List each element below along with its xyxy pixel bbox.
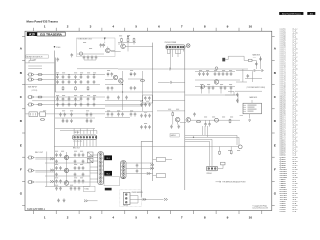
jack J1602 bbox=[29, 78, 35, 81]
capacitor bbox=[82, 179, 85, 183]
pin 5 bbox=[99, 169, 102, 172]
wire bbox=[111, 42, 153, 51]
svg-text:CN7001 POWER: CN7001 POWER bbox=[165, 42, 178, 44]
wire net V2 bbox=[47, 152, 67, 187]
resistor R3210 bbox=[40, 119, 45, 121]
resistor R3231 bbox=[229, 119, 231, 123]
capacitor bbox=[62, 80, 65, 84]
pin 4 bbox=[122, 172, 125, 175]
node bbox=[249, 120, 251, 122]
capacitor bbox=[56, 75, 59, 79]
pin 6 bbox=[180, 46, 182, 48]
wire bbox=[180, 120, 240, 122]
transistor Q3201 bbox=[214, 80, 219, 85]
capacitor bbox=[78, 166, 81, 170]
transistor Q7603 bbox=[64, 155, 69, 160]
wire bbox=[88, 200, 98, 202]
capacitor bbox=[62, 103, 65, 107]
capacitor bbox=[74, 173, 77, 177]
svg-text:CN7604: CN7604 bbox=[206, 173, 211, 175]
capacitor bbox=[82, 160, 85, 164]
wire bbox=[126, 160, 172, 176]
svg-text:2: 2 bbox=[67, 24, 69, 28]
wire bbox=[55, 129, 97, 134]
pin 4 bbox=[83, 136, 85, 138]
capacitor bbox=[222, 72, 225, 76]
wire bbox=[25, 75, 185, 109]
capacitor C1610 bbox=[100, 43, 103, 47]
relay RL7603 bbox=[105, 188, 112, 191]
capacitor bbox=[59, 166, 62, 170]
capacitor bbox=[80, 103, 83, 107]
capacitor bbox=[208, 86, 211, 90]
wire bbox=[158, 81, 185, 83]
test point arrow bbox=[104, 38, 106, 40]
pin labels bbox=[248, 105, 257, 112]
test point arrow bbox=[127, 36, 129, 38]
resistor R1622 bbox=[133, 38, 135, 42]
pin 2 bbox=[99, 157, 102, 160]
svg-text:Mono Panel/ E/S Trasera: Mono Panel/ E/S Trasera bbox=[282, 12, 301, 15]
svg-text:E/S TRASEIRA: E/S TRASEIRA bbox=[40, 32, 62, 36]
wire bbox=[105, 112, 153, 118]
capacitor bbox=[56, 97, 59, 101]
capacitor bbox=[87, 103, 90, 107]
capacitor bbox=[117, 112, 120, 116]
node E1601 bbox=[186, 44, 190, 48]
svg-text:A10: A10 bbox=[29, 32, 35, 36]
svg-text:F: F bbox=[274, 168, 276, 172]
capacitor bbox=[148, 125, 151, 129]
jack J1612 bbox=[29, 169, 35, 172]
connector CN7605 bbox=[206, 166, 217, 171]
transistor Q1606 bbox=[119, 79, 124, 84]
capacitor bbox=[78, 153, 81, 157]
capacitor bbox=[55, 173, 58, 177]
capacitor bbox=[130, 112, 133, 116]
pin 1 bbox=[122, 162, 125, 165]
capacitor C2261 bbox=[259, 57, 262, 61]
wire net V1 bbox=[55, 51, 56, 187]
capacitor bbox=[178, 125, 181, 129]
pin 7 bbox=[92, 136, 94, 138]
capacitor bbox=[70, 119, 73, 123]
capacitor bbox=[107, 86, 110, 90]
svg-text:(TO POWER SUPPLY CN801): (TO POWER SUPPLY CN801) bbox=[247, 87, 266, 89]
resistor R3240 bbox=[221, 162, 225, 165]
capacitor C1606 bbox=[91, 56, 94, 60]
wire bbox=[240, 114, 250, 119]
capacitor bbox=[93, 97, 96, 101]
capacitor bbox=[62, 119, 65, 123]
node bbox=[238, 145, 242, 149]
pin 6 bbox=[99, 172, 102, 175]
capacitor bbox=[212, 86, 215, 90]
capacitor bbox=[66, 119, 69, 123]
pin 1 bbox=[166, 46, 168, 48]
capacitor bbox=[82, 173, 85, 177]
jack J1601 bbox=[29, 73, 35, 76]
value labels bbox=[43, 35, 240, 186]
capacitor bbox=[68, 103, 71, 107]
capacitor bbox=[144, 125, 147, 129]
connector CN7604 bbox=[121, 161, 126, 179]
resistor series bbox=[38, 96, 43, 98]
plug P3 bbox=[147, 172, 151, 174]
connector CN7004 MAIN DECK bbox=[243, 103, 262, 114]
resistor R3230 bbox=[196, 121, 201, 123]
wire bus bbox=[185, 135, 239, 141]
capacitor bbox=[93, 75, 96, 79]
svg-text:CN7005 SERVICE: CN7005 SERVICE bbox=[132, 192, 143, 194]
wire bbox=[25, 114, 105, 121]
pin 3 bbox=[214, 168, 216, 170]
capacitor C1601 bbox=[57, 58, 60, 62]
pin 2 bbox=[211, 168, 213, 170]
capacitor bbox=[140, 114, 143, 118]
capacitor bbox=[230, 86, 233, 90]
capacitor bbox=[140, 103, 143, 107]
pin 3 bbox=[99, 161, 102, 164]
wire bbox=[195, 68, 248, 70]
capacitor bbox=[193, 112, 196, 116]
capacitor bbox=[87, 80, 90, 84]
capacitor bbox=[74, 153, 77, 157]
capacitor C1641 bbox=[170, 81, 174, 84]
transistor Q7604 bbox=[64, 168, 69, 173]
capacitor bbox=[74, 75, 77, 79]
transistor Q1605 bbox=[113, 75, 118, 80]
capacitor bbox=[111, 112, 114, 116]
box under relay bbox=[104, 177, 120, 186]
svg-text:P1600: P1600 bbox=[56, 47, 60, 49]
pin 7 bbox=[182, 46, 184, 48]
wire bbox=[185, 72, 240, 96]
capacitor bbox=[80, 75, 83, 79]
node bbox=[215, 118, 219, 122]
capacitor bbox=[136, 169, 139, 173]
capacitor bbox=[198, 72, 201, 76]
capacitor bbox=[214, 72, 217, 76]
transistor Q7606 bbox=[175, 117, 180, 122]
jack J1611 bbox=[29, 156, 35, 159]
resistor R3242 bbox=[230, 150, 232, 154]
svg-text:1: 1 bbox=[44, 24, 46, 28]
capacitor bbox=[74, 166, 77, 170]
svg-text:CN201: CN201 bbox=[253, 57, 257, 59]
sheet label A10 bbox=[27, 32, 37, 36]
filter box L5601 bbox=[143, 95, 153, 103]
wire net B bbox=[141, 43, 152, 198]
capacitor bbox=[74, 187, 77, 191]
svg-text:3139 125 5986.1: 3139 125 5986.1 bbox=[27, 208, 46, 211]
plug bbox=[50, 180, 54, 182]
wire bbox=[90, 155, 98, 187]
plug bbox=[50, 169, 54, 171]
svg-text:S1600: S1600 bbox=[32, 59, 36, 61]
wire bbox=[105, 101, 185, 107]
switch S1601 MONITOR SWITCH bbox=[26, 55, 49, 58]
transistor Q7605 bbox=[64, 181, 69, 186]
capacitor bbox=[111, 86, 114, 90]
capacitor C2270 bbox=[254, 69, 257, 72]
pin 8 bbox=[95, 136, 97, 138]
pin 2 bbox=[77, 136, 79, 138]
pin 5 bbox=[122, 176, 125, 179]
capacitor bbox=[86, 113, 89, 117]
pin 1 bbox=[74, 136, 76, 138]
capacitor bbox=[247, 74, 250, 78]
resistor bbox=[75, 86, 77, 90]
svg-text:2: 2 bbox=[67, 215, 69, 219]
capacitor bbox=[87, 97, 90, 101]
plug P4 bbox=[164, 198, 168, 200]
capacitor bbox=[125, 96, 128, 100]
svg-text:8: 8 bbox=[204, 215, 206, 219]
relay RL7602 bbox=[104, 171, 112, 176]
resistor series bbox=[38, 104, 43, 106]
transistor Q1602 bbox=[106, 48, 111, 53]
capacitor bbox=[170, 125, 173, 129]
capacitor bbox=[68, 97, 71, 101]
note bbox=[216, 181, 222, 183]
capacitor bbox=[226, 72, 229, 76]
capacitor bbox=[144, 114, 147, 118]
capacitor bbox=[206, 72, 209, 76]
wire bbox=[54, 146, 238, 148]
capacitor bbox=[55, 179, 58, 183]
wire net D bbox=[184, 49, 186, 190]
svg-text:9: 9 bbox=[227, 24, 229, 28]
capacitor bbox=[93, 80, 96, 84]
capacitor bbox=[107, 72, 110, 76]
capacitor bbox=[74, 179, 77, 183]
svg-text:(OPTION): (OPTION) bbox=[31, 90, 37, 92]
capacitor bbox=[68, 75, 71, 79]
capacitor bbox=[87, 75, 90, 79]
resistor R3241 bbox=[219, 151, 221, 155]
parts list column bbox=[280, 27, 299, 213]
svg-text:7: 7 bbox=[181, 215, 183, 219]
label box bbox=[170, 134, 179, 137]
pin 6 bbox=[89, 136, 91, 138]
wire bbox=[25, 63, 54, 69]
capacitor C1611 bbox=[102, 43, 105, 47]
pin 2 bbox=[125, 197, 127, 199]
capacitor bbox=[74, 103, 77, 107]
svg-text:CN7005: CN7005 bbox=[123, 205, 128, 207]
pin 2 bbox=[122, 165, 125, 168]
capacitor bbox=[56, 80, 59, 84]
node P1600 bbox=[54, 46, 56, 48]
capacitor bbox=[64, 113, 67, 117]
resistor bbox=[87, 86, 89, 90]
capacitor bbox=[140, 125, 143, 129]
capacitor bbox=[224, 86, 227, 90]
pin 4 bbox=[99, 165, 102, 168]
capacitor bbox=[86, 119, 89, 123]
ground bbox=[57, 199, 60, 202]
capacitor bbox=[55, 187, 58, 191]
capacitor bbox=[230, 72, 233, 76]
svg-text:REC OUT: REC OUT bbox=[73, 148, 80, 150]
capacitor bbox=[74, 80, 77, 84]
capacitor bbox=[134, 112, 137, 116]
plug P1 bbox=[150, 164, 154, 166]
capacitor bbox=[82, 166, 85, 170]
wire bbox=[118, 68, 195, 70]
svg-text:6: 6 bbox=[158, 24, 160, 28]
svg-text:3: 3 bbox=[90, 24, 92, 28]
capacitor C1604 bbox=[83, 56, 86, 60]
capacitor bbox=[62, 97, 65, 101]
node bbox=[215, 67, 218, 70]
svg-text:C2202: C2202 bbox=[280, 210, 287, 213]
connector CN7603 bbox=[98, 152, 104, 185]
capacitor bbox=[111, 72, 114, 76]
label box bbox=[84, 186, 96, 192]
capacitor bbox=[78, 179, 81, 183]
svg-text:A10: A10 bbox=[310, 12, 313, 15]
plug P5 bbox=[84, 200, 88, 202]
resistor series bbox=[38, 79, 43, 81]
capacitor bbox=[144, 96, 147, 100]
pin 1 bbox=[125, 194, 127, 196]
wire bbox=[218, 165, 223, 169]
ground bbox=[63, 199, 66, 202]
capacitor bbox=[136, 164, 139, 168]
pin 5 bbox=[177, 46, 179, 48]
capacitor bbox=[220, 86, 223, 90]
svg-text:9: 9 bbox=[227, 215, 229, 219]
capacitor bbox=[55, 153, 58, 157]
resistor bbox=[62, 86, 64, 90]
capacitor bbox=[80, 97, 83, 101]
capacitor bbox=[134, 86, 137, 90]
wire bbox=[105, 71, 143, 111]
svg-text:REC OUT: REC OUT bbox=[35, 152, 44, 154]
capacitor C1607 bbox=[95, 56, 98, 60]
capacitor bbox=[130, 86, 133, 90]
relay coil K2260 bbox=[222, 58, 225, 62]
module shield box bbox=[76, 38, 115, 57]
capacitor bbox=[82, 153, 85, 157]
capacitor bbox=[90, 113, 93, 117]
pin 8 bbox=[99, 180, 102, 183]
svg-text:Mono Panel/ E/S Trasera: Mono Panel/ E/S Trasera bbox=[27, 20, 59, 24]
wire bbox=[130, 196, 164, 204]
plug P4a bbox=[143, 198, 147, 200]
capacitor bbox=[59, 187, 62, 191]
capacitor bbox=[59, 113, 62, 117]
resistor series bbox=[38, 74, 43, 76]
transistor Q1601 bbox=[79, 52, 82, 55]
capacitor bbox=[70, 187, 73, 191]
svg-text:6: 6 bbox=[158, 215, 160, 219]
capacitor bbox=[148, 114, 151, 118]
pin 3 bbox=[125, 201, 127, 203]
wire net C bbox=[170, 49, 172, 69]
svg-text:7: 7 bbox=[181, 24, 183, 28]
service box bbox=[120, 190, 142, 207]
resistor R1621 bbox=[127, 38, 129, 42]
capacitor bbox=[56, 103, 59, 107]
pin 5 bbox=[86, 136, 88, 138]
svg-text:RL1: RL1 bbox=[107, 158, 110, 160]
capacitor C2271 bbox=[261, 69, 264, 72]
capacitor bbox=[134, 72, 137, 76]
resistor R3205 bbox=[140, 80, 145, 82]
node dots bbox=[122, 84, 123, 85]
connector CN7606 bbox=[123, 192, 130, 204]
capacitor bbox=[121, 112, 124, 116]
resistor bbox=[172, 112, 174, 116]
capacitor bbox=[148, 96, 151, 100]
wire bbox=[77, 60, 118, 69]
pin 3 bbox=[172, 46, 174, 48]
capacitor bbox=[236, 93, 239, 97]
pin 1 bbox=[208, 168, 210, 170]
capacitor bbox=[78, 187, 81, 191]
capacitor bbox=[107, 112, 110, 116]
wire bbox=[202, 90, 239, 103]
svg-text:CN7602: CN7602 bbox=[74, 132, 79, 134]
relay RL7601 bbox=[104, 155, 112, 160]
resistor R3220 bbox=[248, 59, 252, 61]
capacitor bbox=[107, 96, 110, 100]
transistor Q7602 bbox=[186, 118, 191, 123]
capacitor C1602 bbox=[71, 53, 74, 57]
capacitor bbox=[68, 80, 71, 84]
capacitor C1640 bbox=[169, 68, 173, 71]
capacitor bbox=[208, 122, 211, 126]
svg-text:4: 4 bbox=[112, 215, 114, 219]
jack J1604 bbox=[29, 103, 35, 106]
svg-text:10: 10 bbox=[249, 24, 253, 28]
capacitor bbox=[117, 96, 120, 100]
jack J1603 bbox=[29, 96, 35, 99]
pin 1 bbox=[99, 153, 102, 156]
capacitor bbox=[74, 97, 77, 101]
socket bbox=[156, 158, 165, 162]
capacitor bbox=[55, 166, 58, 170]
node dots bbox=[57, 74, 58, 75]
capacitor bbox=[55, 160, 58, 164]
svg-text:4: 4 bbox=[112, 24, 114, 28]
svg-text:3: 3 bbox=[90, 215, 92, 219]
capacitor bbox=[59, 153, 62, 157]
plug P2 bbox=[150, 167, 154, 169]
capacitor bbox=[130, 72, 133, 76]
transistor Q3202 bbox=[201, 85, 205, 89]
transistor Q1603 bbox=[121, 44, 126, 49]
capacitor bbox=[144, 103, 147, 107]
pin 3 bbox=[80, 136, 82, 138]
wire bbox=[225, 56, 260, 82]
capacitor bbox=[93, 103, 96, 107]
capacitor bbox=[90, 119, 93, 123]
pin 2 bbox=[169, 46, 171, 48]
jack J1613 bbox=[29, 181, 35, 184]
svg-text:5: 5 bbox=[135, 215, 137, 219]
varistor X1 bbox=[88, 152, 94, 163]
pin 4 bbox=[174, 46, 176, 48]
wire bbox=[27, 158, 98, 187]
svg-text:RL2: RL2 bbox=[107, 173, 110, 175]
capacitor C1605 bbox=[87, 56, 90, 60]
capacitor bbox=[70, 113, 73, 117]
wire bbox=[167, 49, 183, 57]
